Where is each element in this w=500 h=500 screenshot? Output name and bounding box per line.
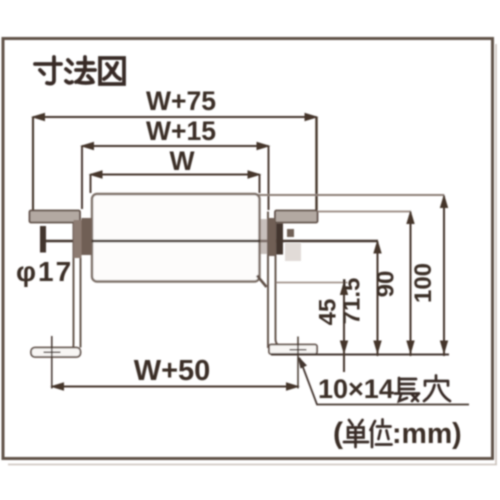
W right extension line <box>259 175 261 194</box>
svg-text:φ17: φ17 <box>16 256 73 287</box>
right frame vertical plate <box>268 212 284 349</box>
W+15 right extension line <box>268 146 270 210</box>
right frame flange (gray slab) <box>275 211 318 223</box>
dimension W line <box>89 170 262 178</box>
dimension 45 vertical line <box>340 281 348 372</box>
slotted hole leader arrowhead <box>298 356 308 369</box>
left plate dark zone <box>74 220 82 258</box>
svg-text:10×14: 10×14 <box>318 374 394 404</box>
W+15 left extension line <box>81 146 83 209</box>
label 長 (hand-drawn) <box>395 378 419 401</box>
svg-text:W+75: W+75 <box>146 86 216 116</box>
dimension 90 vertical line <box>406 210 414 356</box>
位 (hand-drawn) <box>371 420 392 448</box>
label 穴 (hand-drawn) <box>424 376 450 402</box>
left shaft cotter pin <box>40 226 46 253</box>
法 <box>66 57 95 83</box>
dimension W+50 line <box>50 382 300 390</box>
left slot centerline <box>44 336 61 389</box>
図 <box>100 58 124 84</box>
svg-text:W: W <box>169 146 194 176</box>
left foot (bottom flange with slot) <box>31 348 81 358</box>
svg-text:(: ( <box>333 417 343 450</box>
dimension W+15 line <box>80 142 271 150</box>
flange top extension line to 90 dim <box>318 211 411 213</box>
svg-text:W+50: W+50 <box>134 355 211 387</box>
dimension 71.5 vertical line <box>373 240 381 357</box>
svg-text:100: 100 <box>410 263 437 303</box>
svg-text::mm): :mm) <box>392 418 462 450</box>
left frame vertical plate <box>64 222 81 356</box>
right bearing block <box>268 218 276 256</box>
left frame flange (gray slab) <box>30 211 81 223</box>
W+75 left extension line <box>32 117 34 210</box>
45 leader diagonal at roller corner <box>257 276 267 288</box>
title 寸法図 (hand-drawn kanji) <box>35 57 124 84</box>
right foot (bottom flange with slot) <box>269 345 317 355</box>
roller top extension line to 100 dim <box>256 194 444 196</box>
W left extension line <box>90 175 92 194</box>
right roller-end gap shading <box>261 219 268 254</box>
axle shaft centerline <box>41 240 378 243</box>
dimension 100 vertical line <box>440 194 448 356</box>
svg-text:45: 45 <box>315 299 342 326</box>
roller bottom extension line to 45 dim <box>276 282 348 284</box>
right slot centerline <box>290 337 307 389</box>
right shaft end tick <box>287 229 294 237</box>
roller body <box>92 194 260 282</box>
slotted hole leader line <box>300 358 470 405</box>
単 (hand-drawn) <box>344 420 368 447</box>
寸 <box>35 57 61 84</box>
W+75 right extension line <box>315 117 317 210</box>
svg-text:90: 90 <box>373 271 400 298</box>
svg-text:71.5: 71.5 <box>339 278 366 325</box>
right shaft shadow blob <box>285 243 301 261</box>
ground baseline <box>271 354 449 356</box>
svg-text:W+15: W+15 <box>146 116 216 146</box>
left bearing block <box>82 218 92 255</box>
dimension W+75 line <box>31 113 319 121</box>
right shaft cotter pin <box>277 224 284 255</box>
